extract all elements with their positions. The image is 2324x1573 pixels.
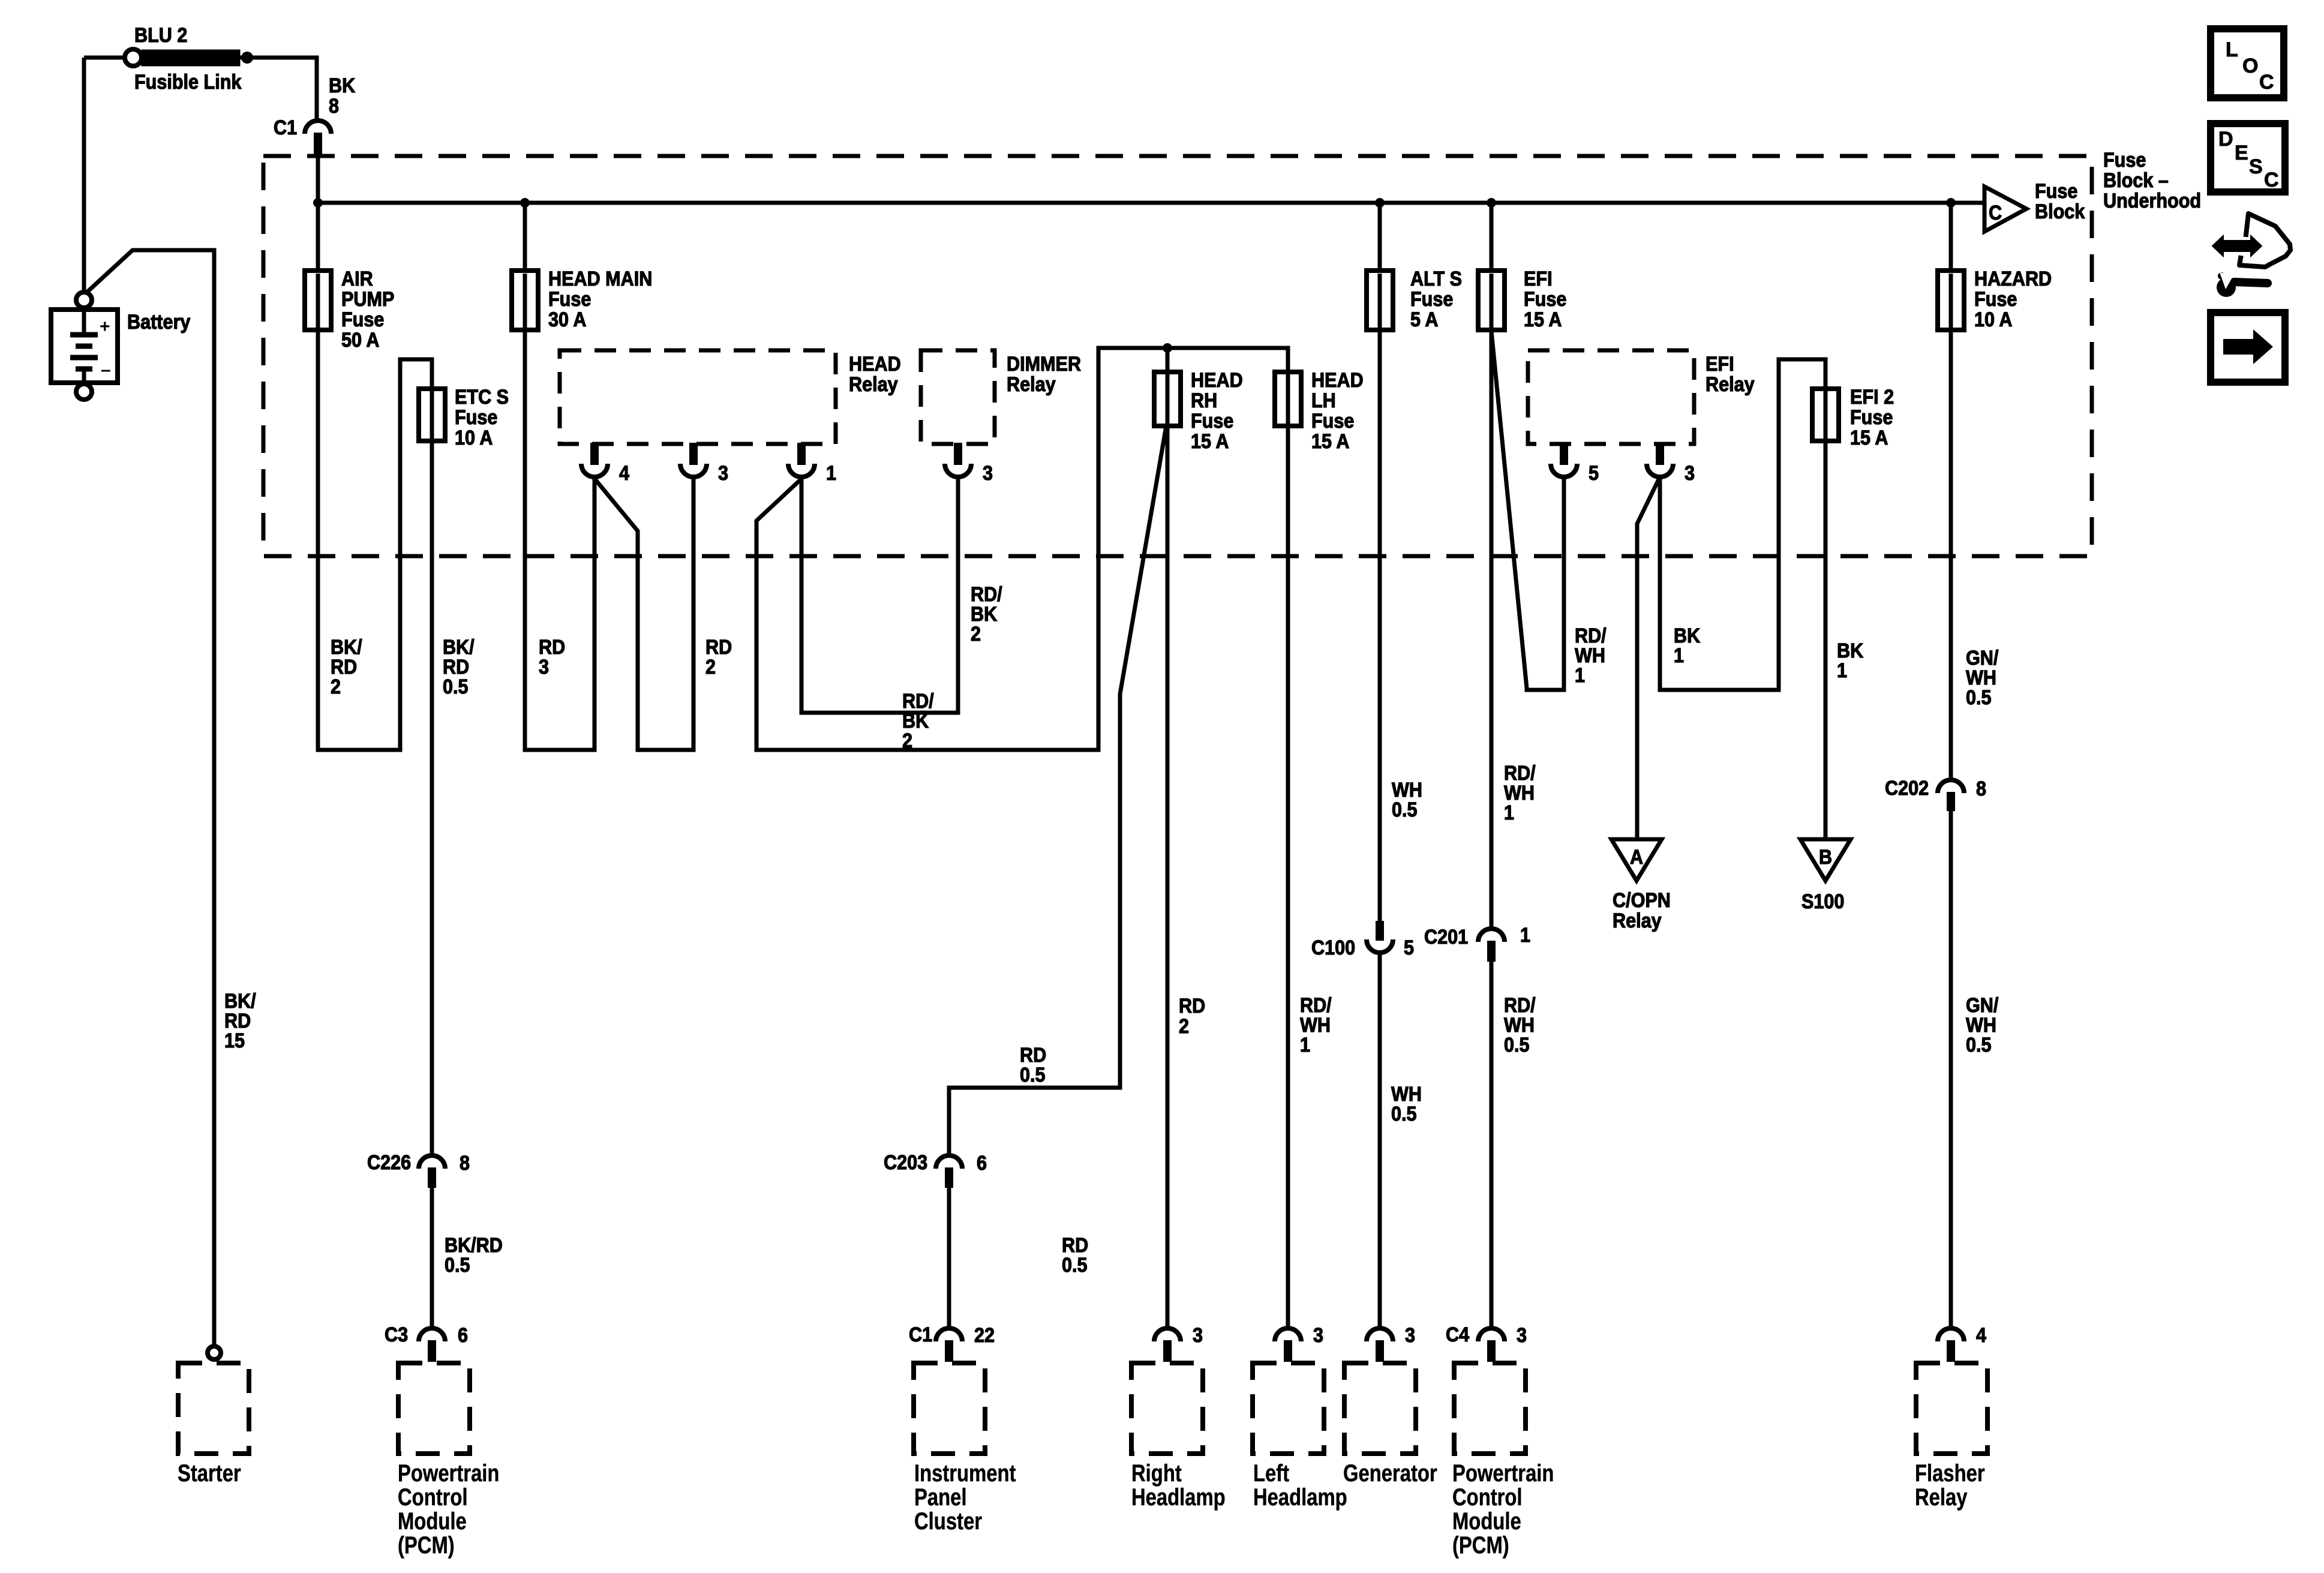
wire EFI relay pin 3 to EFI 2 fuse bbox=[1660, 359, 1825, 690]
svg-text:RD/WH1: RD/WH1 bbox=[1300, 994, 1332, 1056]
svg-text:RD/WH1: RD/WH1 bbox=[1575, 625, 1607, 687]
svg-text:HEADRHFuse15 A: HEADRHFuse15 A bbox=[1191, 369, 1243, 453]
component box Flasher Relay bbox=[1916, 1363, 1987, 1454]
relay box EFI Relay bbox=[1528, 350, 1694, 444]
svg-text:Fusible Link: Fusible Link bbox=[134, 71, 242, 94]
svg-text:+: + bbox=[100, 317, 110, 337]
svg-text:3: 3 bbox=[1313, 1324, 1323, 1347]
svg-text:C226: C226 bbox=[367, 1151, 411, 1174]
svg-text:3: 3 bbox=[718, 462, 728, 485]
junction dot bus at EFI bbox=[1487, 198, 1496, 208]
triangle B bbox=[1800, 839, 1851, 881]
wire C203 to instrument panel cluster C1 bbox=[947, 1187, 951, 1329]
DESC legend box bbox=[2211, 124, 2285, 192]
svg-text:ALT SFuse5 A: ALT SFuse5 A bbox=[1410, 268, 1462, 331]
svg-text:C: C bbox=[1989, 202, 2002, 224]
wire bus to HEAD RH fuse bbox=[1166, 348, 1170, 371]
wire C1 to bus bbox=[316, 154, 320, 274]
fuse HAZARD 10 A bbox=[1938, 271, 1964, 330]
junction dot bus at ALT S bbox=[1375, 198, 1385, 208]
svg-text:5: 5 bbox=[1589, 462, 1599, 485]
wire through ALT S fuse bbox=[1378, 274, 1382, 329]
svg-text:22: 22 bbox=[974, 1324, 995, 1347]
wire HEAD LH fuse to left headlamp bbox=[1286, 424, 1290, 1329]
junction dot bus at HEAD MAIN bbox=[520, 198, 530, 208]
wire HAZARD fuse to C202 bbox=[1949, 329, 1953, 781]
wire bus to AIR PUMP fuse bbox=[316, 203, 320, 274]
svg-text:C203: C203 bbox=[884, 1151, 927, 1174]
svg-text:LOC: LOC bbox=[2226, 38, 2274, 94]
junction dot headlamp fuse bus bbox=[1163, 343, 1172, 353]
wire EFI fuse diagonal to EFI relay pin 5 bbox=[1491, 331, 1564, 690]
svg-text:FlasherRelay: FlasherRelay bbox=[1915, 1460, 1985, 1511]
wire through HEAD LH fuse bbox=[1286, 374, 1290, 424]
wire HEAD relay pin 1 to headlamp fuse bus bbox=[756, 348, 1288, 750]
junction dot fusible link output bbox=[241, 52, 253, 64]
svg-text:4: 4 bbox=[1976, 1324, 1986, 1347]
connector C203 bbox=[936, 1155, 962, 1188]
svg-text:C/OPNRelay: C/OPNRelay bbox=[1613, 889, 1671, 932]
wire through HEAD MAIN fuse bbox=[523, 274, 527, 329]
wire through AIR PUMP fuse bbox=[316, 274, 320, 329]
svg-text:HAZARDFuse10 A: HAZARDFuse10 A bbox=[1974, 268, 2052, 331]
component box Generator bbox=[1344, 1363, 1416, 1454]
wire through ETC S fuse bbox=[430, 391, 434, 439]
svg-text:3: 3 bbox=[1517, 1324, 1527, 1347]
wire bus to EFI fuse bbox=[1490, 203, 1494, 274]
svg-text:RD/WH0.5: RD/WH0.5 bbox=[1504, 994, 1536, 1056]
EFI relay pin 5 bbox=[1551, 443, 1577, 477]
wire EFI fuse to C201 bbox=[1490, 329, 1494, 930]
svg-text:BK/RD2: BK/RD2 bbox=[331, 636, 362, 698]
svg-text:RD3: RD3 bbox=[539, 636, 565, 679]
wire C202 to flasher relay bbox=[1949, 810, 1953, 1329]
starter terminal ring bbox=[208, 1346, 221, 1359]
connector C1 instrument panel cluster bbox=[936, 1328, 962, 1362]
svg-text:RD0.5: RD0.5 bbox=[1020, 1044, 1046, 1086]
component box Powertrain Control Module right bbox=[1454, 1363, 1526, 1454]
junction dot bus at HAZARD bbox=[1946, 198, 1956, 208]
wire HEAD RH fuse to right headlamp bbox=[1166, 424, 1170, 1329]
svg-text:4: 4 bbox=[619, 462, 629, 485]
wire ring to corner bbox=[84, 56, 125, 60]
svg-text:C100: C100 bbox=[1311, 936, 1355, 959]
svg-text:PowertrainControlModule(PCM): PowertrainControlModule(PCM) bbox=[398, 1460, 499, 1559]
svg-text:S100: S100 bbox=[1801, 890, 1844, 913]
EFI relay pin 3 bbox=[1647, 443, 1673, 477]
wire ETC S fuse to C226 bbox=[430, 440, 434, 1157]
svg-text:WH0.5: WH0.5 bbox=[1391, 1083, 1422, 1125]
svg-text:BK/RD15: BK/RD15 bbox=[224, 990, 256, 1052]
relay box DIMMER Relay bbox=[921, 350, 995, 444]
svg-text:RD/BK2: RD/BK2 bbox=[902, 690, 934, 752]
wire C100 to generator bbox=[1378, 953, 1382, 1329]
svg-text:BK8: BK8 bbox=[329, 74, 356, 118]
wire battery positive to fusible link bbox=[82, 58, 86, 294]
svg-text:HEADLHFuse15 A: HEADLHFuse15 A bbox=[1311, 369, 1364, 453]
fuse ETC S 10 A bbox=[419, 389, 445, 441]
junction dot bus at C1 bbox=[313, 198, 323, 208]
svg-text:3: 3 bbox=[1405, 1324, 1415, 1347]
wire through EFI fuse bbox=[1490, 274, 1494, 329]
generator connector pin 3 bbox=[1367, 1328, 1393, 1362]
HEAD relay pin 4 bbox=[581, 443, 608, 477]
fusible link left terminal ring bbox=[125, 49, 142, 66]
svg-text:RD0.5: RD0.5 bbox=[1062, 1234, 1088, 1277]
direction arrow bbox=[2223, 329, 2273, 364]
svg-text:C202: C202 bbox=[1885, 777, 1929, 800]
fuse HEAD RH 15 A bbox=[1154, 372, 1181, 426]
svg-text:5: 5 bbox=[1404, 936, 1414, 959]
svg-text:GN/WH0.5: GN/WH0.5 bbox=[1966, 994, 1998, 1056]
svg-text:1: 1 bbox=[1520, 924, 1530, 947]
svg-text:EFI 2Fuse15 A: EFI 2Fuse15 A bbox=[1850, 386, 1894, 449]
wire bus to HEAD MAIN fuse bbox=[523, 203, 527, 274]
main bus wire bbox=[318, 201, 1984, 205]
svg-text:PowertrainControlModule(PCM): PowertrainControlModule(PCM) bbox=[1452, 1460, 1554, 1559]
svg-text:C4: C4 bbox=[1446, 1323, 1469, 1346]
LOC legend box bbox=[2211, 29, 2284, 98]
svg-text:BLU 2: BLU 2 bbox=[134, 24, 187, 47]
double arrow icon bbox=[2212, 236, 2262, 256]
connector C201 bbox=[1478, 929, 1505, 962]
svg-text:8: 8 bbox=[1976, 778, 1986, 800]
triangle A bbox=[1611, 839, 1662, 881]
wire EFI 2 fuse to S100 bbox=[1824, 440, 1828, 839]
svg-text:FuseBlock –Underhood: FuseBlock –Underhood bbox=[2103, 149, 2201, 212]
svg-text:Starter: Starter bbox=[178, 1460, 241, 1487]
wire C201 to PCM C4 bbox=[1490, 962, 1494, 1329]
wire through EFI 2 fuse bbox=[1824, 391, 1828, 439]
svg-text:HEAD MAINFuse30 A: HEAD MAINFuse30 A bbox=[548, 268, 652, 331]
svg-text:3: 3 bbox=[1685, 462, 1695, 485]
connector C100 bbox=[1367, 921, 1393, 953]
svg-text:BK/RD0.5: BK/RD0.5 bbox=[443, 636, 475, 698]
svg-text:AIRPUMPFuse50 A: AIRPUMPFuse50 A bbox=[341, 268, 394, 352]
svg-text:EFIRelay: EFIRelay bbox=[1706, 353, 1755, 396]
left headlamp connector pin 3 bbox=[1275, 1328, 1301, 1362]
component box Starter bbox=[178, 1363, 249, 1454]
battery bbox=[51, 292, 118, 400]
svg-text:3: 3 bbox=[983, 462, 993, 485]
svg-text:GN/WH0.5: GN/WH0.5 bbox=[1966, 647, 1998, 709]
wire HEAD RH fuse branch to C203 bbox=[949, 426, 1166, 1157]
svg-text:BK1: BK1 bbox=[1837, 640, 1864, 682]
svg-text:6: 6 bbox=[458, 1324, 468, 1347]
svg-text:DIMMERRelay: DIMMERRelay bbox=[1007, 353, 1081, 396]
wire HEAD MAIN fuse down to HEAD relay pin 4 bbox=[525, 329, 594, 750]
wire bus to HAZARD fuse bbox=[1949, 203, 1953, 274]
svg-text:C201: C201 bbox=[1424, 926, 1468, 948]
fuse block underhood dashed box bbox=[263, 156, 2092, 556]
wire bus to ALT S fuse bbox=[1378, 203, 1382, 274]
HEAD relay pin 1 bbox=[788, 443, 815, 477]
svg-text:ETC SFuse10 A: ETC SFuse10 A bbox=[455, 386, 509, 449]
wire EFI relay pin 3 to C/OPN relay bbox=[1637, 479, 1659, 839]
svg-text:RD2: RD2 bbox=[1179, 995, 1205, 1038]
component box Right Headlamp bbox=[1131, 1363, 1203, 1454]
wire battery to starter bbox=[88, 250, 214, 1346]
fuse AIR PUMP 50 A bbox=[305, 271, 331, 330]
svg-text:C1: C1 bbox=[909, 1323, 932, 1346]
DIMMER relay pin 3 bbox=[945, 443, 971, 477]
svg-text:Battery: Battery bbox=[127, 311, 190, 334]
svg-text:RD2: RD2 bbox=[705, 636, 732, 679]
relay box HEAD Relay bbox=[560, 350, 836, 444]
svg-text:LeftHeadlamp: LeftHeadlamp bbox=[1253, 1460, 1347, 1511]
svg-text:BK1: BK1 bbox=[1674, 625, 1701, 667]
direction arrow legend box bbox=[2211, 313, 2285, 382]
wire C226 to C3 bbox=[430, 1187, 434, 1329]
fuse EFI 15 A bbox=[1478, 271, 1505, 330]
fuse HEAD MAIN 30 A bbox=[512, 271, 538, 330]
svg-text:8: 8 bbox=[460, 1152, 470, 1175]
fuse ALT S 5 A bbox=[1367, 271, 1393, 330]
PCM C4 connector pin 3 bbox=[1478, 1328, 1505, 1362]
component box Instrument Panel Cluster bbox=[914, 1363, 985, 1454]
connector C3 bbox=[419, 1328, 445, 1362]
svg-text:FuseBlock: FuseBlock bbox=[2035, 180, 2085, 223]
wire AIR PUMP fuse down to ETC S loop bbox=[318, 329, 432, 750]
wire through HAZARD fuse bbox=[1949, 274, 1953, 329]
fusible link body bbox=[142, 50, 240, 66]
svg-text:InstrumentPanelCluster: InstrumentPanelCluster bbox=[914, 1460, 1016, 1535]
connector C202 bbox=[1938, 780, 1964, 811]
right headlamp connector pin 3 bbox=[1154, 1328, 1181, 1362]
svg-text:HEADRelay: HEADRelay bbox=[849, 353, 901, 396]
svg-text:RD/WH1: RD/WH1 bbox=[1504, 762, 1536, 824]
svg-text:C3: C3 bbox=[385, 1323, 408, 1346]
svg-text:DESC: DESC bbox=[2218, 128, 2279, 191]
svg-text:A: A bbox=[1630, 846, 1643, 869]
svg-text:EFIFuse15 A: EFIFuse15 A bbox=[1524, 268, 1566, 331]
wire through HEAD RH fuse bbox=[1166, 374, 1170, 424]
triangle C fuse block pointer bbox=[1984, 187, 2026, 232]
svg-text:BK/RD0.5: BK/RD0.5 bbox=[445, 1234, 503, 1277]
wire HEAD relay pin 1 to DIMMER relay pin 3 bbox=[801, 478, 958, 713]
svg-text:Generator: Generator bbox=[1343, 1460, 1437, 1487]
svg-text:C1: C1 bbox=[274, 116, 297, 139]
svg-text:3: 3 bbox=[1193, 1324, 1203, 1347]
fuse EFI 2 15 A bbox=[1812, 389, 1839, 441]
wrench icon bbox=[2217, 272, 2268, 297]
component box Left Headlamp bbox=[1253, 1363, 1324, 1454]
svg-text:6: 6 bbox=[977, 1152, 987, 1175]
connector C1 bbox=[305, 121, 331, 155]
svg-text:–: – bbox=[101, 360, 111, 380]
component box Powertrain Control Module left bbox=[398, 1363, 470, 1454]
wire ALT S fuse to C100 bbox=[1378, 329, 1382, 921]
HEAD relay pin 3 bbox=[680, 443, 707, 477]
svg-text:1: 1 bbox=[826, 462, 836, 485]
svg-text:RightHeadlamp: RightHeadlamp bbox=[1131, 1460, 1226, 1511]
wire fusible link to C1 drop bbox=[240, 58, 317, 122]
car outline icon bbox=[2239, 214, 2290, 267]
svg-text:RD/BK2: RD/BK2 bbox=[971, 583, 1002, 646]
connector C226 bbox=[419, 1155, 445, 1188]
svg-text:WH0.5: WH0.5 bbox=[1392, 779, 1422, 821]
flasher relay connector pin 4 bbox=[1938, 1328, 1964, 1362]
svg-text:B: B bbox=[1819, 846, 1832, 869]
fuse HEAD LH 15 A bbox=[1275, 372, 1301, 426]
wire HEAD relay pin 4 to pin 3 loop bbox=[595, 478, 693, 750]
